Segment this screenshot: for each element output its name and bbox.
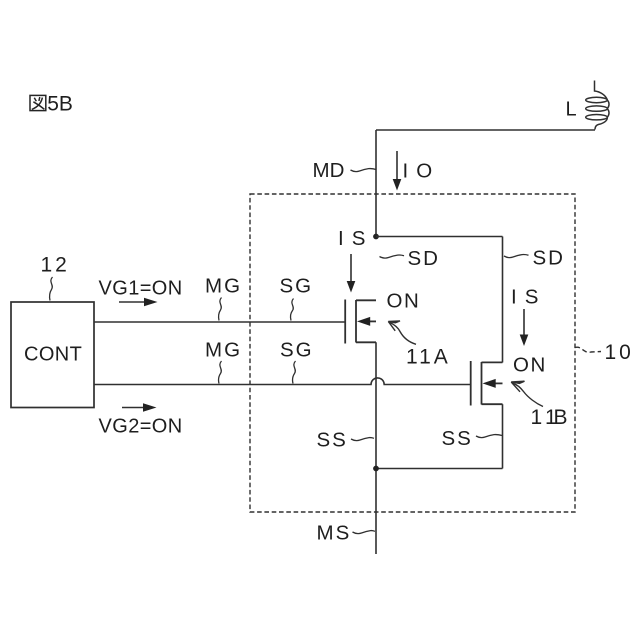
- svg-text:11A: 11A: [406, 346, 451, 369]
- leader curve 11B: [511, 381, 543, 406]
- svg-text:10: 10: [605, 341, 634, 364]
- svg-text:SS: SS: [317, 429, 348, 452]
- wire top horizontal (MD node to inductor): [376, 129, 595, 131]
- figure label 図5B (図 drawn as strokes): [30, 95, 46, 110]
- leader curve 11A: [388, 321, 416, 344]
- body arrow: [369, 320, 376, 322]
- wire VG1 gate line: [94, 321, 345, 323]
- arrow VG2: [122, 407, 145, 409]
- leader squiggle SG bottom: [293, 361, 296, 384]
- svg-text:SG: SG: [280, 275, 314, 298]
- leader squiggle MG bottom: [219, 361, 222, 384]
- node B lower junction dot: [373, 466, 379, 472]
- leader dashes to 10: [575, 347, 601, 352]
- svg-text:MG: MG: [205, 275, 242, 298]
- svg-text:MS: MS: [317, 522, 352, 545]
- source arm: [356, 341, 376, 343]
- arrow VG1: [119, 301, 145, 303]
- control unit box 12: [11, 302, 94, 408]
- wire SS bottom horizontal: [376, 468, 503, 470]
- svg-text:SG: SG: [280, 339, 314, 362]
- gate bar: [344, 300, 346, 344]
- svg-text:5B: 5B: [47, 93, 73, 116]
- transistor Q 11A (MOSFET): [345, 300, 376, 344]
- transistor Q 11B (MOSFET): [471, 361, 503, 406]
- inductor L coil: [586, 81, 609, 130]
- svg-text:SS: SS: [442, 427, 473, 450]
- leader squiggle SG top: [291, 299, 294, 321]
- arrow IO: [396, 151, 398, 180]
- drain arm: [482, 361, 503, 363]
- leader tilde MD: [351, 169, 377, 172]
- svg-text:MD: MD: [313, 159, 345, 182]
- wire MD vertical (top to upper node): [375, 130, 377, 237]
- svg-text:SD: SD: [408, 247, 440, 270]
- svg-text:L: L: [566, 99, 577, 121]
- svg-text:VG2=ON: VG2=ON: [99, 416, 183, 438]
- leader tilde SD right: [504, 255, 529, 258]
- dashed box 10: [250, 194, 575, 512]
- node A upper junction dot: [373, 234, 379, 240]
- body arrow: [495, 382, 503, 384]
- arrow IS right: [523, 309, 525, 335]
- channel bar: [481, 362, 483, 405]
- svg-text:MG: MG: [205, 339, 242, 362]
- wire VG2 gate line with hop over vertical: [94, 378, 471, 385]
- svg-text:VG1=ON: VG1=ON: [99, 278, 183, 300]
- wire 11A source vertical down to MS: [375, 342, 377, 554]
- leader tilde SD left: [380, 255, 405, 258]
- svg-text:IS: IS: [511, 286, 546, 309]
- leader squiggle 12: [50, 277, 53, 301]
- source arm: [482, 403, 503, 405]
- svg-text:ON: ON: [513, 354, 547, 377]
- svg-text:IO: IO: [403, 160, 441, 183]
- gate bar: [470, 361, 472, 406]
- wire upper node to right branch: [376, 236, 503, 238]
- svg-text:IS: IS: [338, 227, 373, 250]
- arrow IS left: [350, 254, 352, 282]
- svg-text:12: 12: [41, 254, 70, 277]
- wire 11B source vertical: [502, 404, 504, 468]
- svg-text:CONT: CONT: [24, 344, 82, 366]
- drain arm: [356, 299, 376, 301]
- svg-text:ON: ON: [387, 290, 421, 313]
- leader squiggle MG top: [219, 298, 222, 321]
- svg-text:11B: 11B: [531, 406, 568, 429]
- leader tilde SS left: [351, 438, 374, 441]
- leader tilde MS: [353, 531, 376, 534]
- channel bar: [355, 300, 357, 343]
- svg-text:SD: SD: [533, 247, 565, 270]
- leader tilde SS right: [476, 435, 502, 438]
- wire 11B drain vertical: [502, 237, 504, 363]
